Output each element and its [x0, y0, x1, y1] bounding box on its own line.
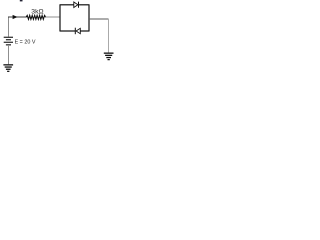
wire battery - to ground: [8, 45, 10, 64]
network box right vertical: [88, 5, 90, 31]
ground (left): [3, 64, 13, 72]
diode D1 (points right): [74, 2, 78, 8]
battery E plates: [4, 37, 13, 46]
diode D2 (points left): [76, 28, 80, 33]
wire right vertical down to ground: [108, 19, 110, 53]
ground (right): [104, 53, 114, 61]
wire resistor to network box: [46, 16, 61, 18]
network box top wire (diode D1 branch): [60, 4, 74, 6]
wire left vertical top (node A to battery +): [8, 17, 10, 37]
wire top horizontal (node A to resistor): [8, 16, 27, 18]
svg-text:E = 20 V: E = 20 V: [15, 40, 36, 46]
current arrow: [13, 15, 18, 19]
wire box to right corner: [89, 18, 109, 20]
network box left vertical: [59, 5, 61, 31]
resistor R1 3kOhm zigzag: [26, 15, 46, 19]
network box bottom wire (diode D2 branch): [60, 30, 76, 32]
stray text fragment top edge: [20, 0, 23, 1]
svg-text:3kΩ: 3kΩ: [31, 9, 43, 16]
